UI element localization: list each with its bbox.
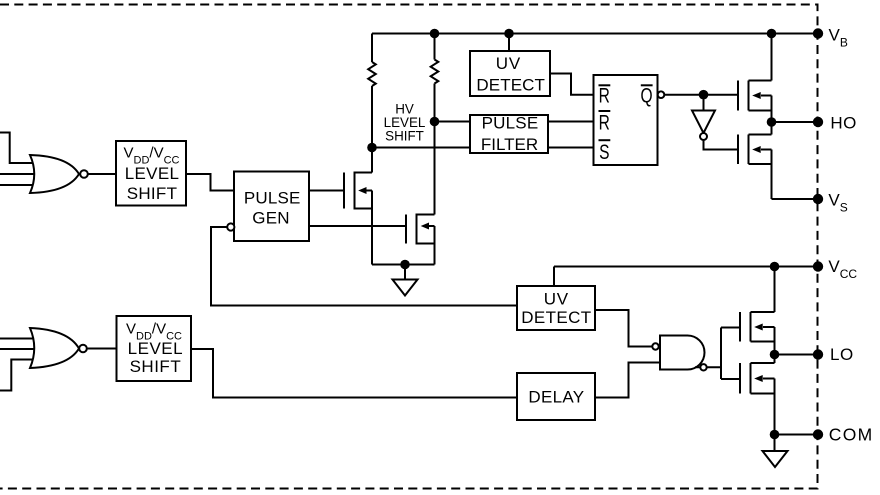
svg-text:UV: UV: [496, 54, 521, 73]
pin HO: [813, 117, 823, 127]
box VDD/VCC LEVEL SHIFT (high side): [116, 141, 186, 206]
svg-text:DELAY: DELAY: [528, 388, 584, 407]
junction dot VCC-Q5: [770, 262, 780, 272]
svg-text:R: R: [599, 83, 610, 107]
box VDD/VCC LEVEL SHIFT (low side): [117, 316, 192, 381]
wire ground stub: [404, 265, 406, 280]
svg-text:R: R: [599, 110, 610, 134]
NOR U2 output bubble: [79, 345, 87, 353]
junction dot rail-R2: [430, 29, 440, 39]
transistor Q5 (low side source FET): [740, 267, 775, 355]
NOR gate U2 (low-side input): [30, 328, 79, 368]
wire U2 out to level shift: [87, 348, 117, 350]
label VDD/VCC level shift 2: [126, 321, 183, 377]
inverter output bubble: [700, 133, 707, 140]
junction dot HO node: [767, 117, 777, 127]
junction dot rail-Q3 drain: [767, 29, 777, 39]
wire pulse filter to latch R2: [548, 121, 594, 123]
junction dot COM node: [770, 430, 780, 440]
wire R2 node to pulse filter: [435, 121, 471, 123]
box PULSE FILTER: [470, 115, 548, 153]
latch R1 overbar: [599, 84, 611, 86]
NOR U1 output bubble: [80, 170, 88, 178]
wire common source rail: [372, 264, 435, 266]
wire R1 node to pulse filter: [372, 147, 470, 149]
svg-text:SHIFT: SHIFT: [385, 129, 424, 144]
NOR gate U1 (high-side input): [30, 155, 79, 193]
svg-text:UV: UV: [544, 290, 569, 309]
label PULSE GEN: [244, 189, 301, 228]
ground (level shift): [393, 280, 418, 296]
box UV DETECT (low side): [517, 286, 595, 330]
wire to Q6 gate: [721, 378, 740, 380]
svg-text:SHIFT: SHIFT: [130, 357, 182, 376]
label HV LEVEL SHIFT: [384, 102, 426, 144]
label PULSE FILTER: [481, 114, 539, 155]
latch output bubble: [658, 91, 665, 98]
wire to inverter: [703, 95, 705, 111]
wire LIN input A: [0, 338, 37, 340]
transistor Q1 (HV level shift set): [344, 148, 372, 265]
wire ground stub COM: [774, 435, 776, 452]
svg-text:S: S: [599, 140, 609, 164]
wire UV detect 1 to latch R: [550, 74, 594, 95]
resistor R1: [368, 34, 376, 148]
pin VS: [813, 194, 823, 204]
label UV DETECT 2: [521, 290, 591, 328]
pin VB: [813, 28, 823, 38]
latch U3 (RS latch): [594, 75, 658, 165]
svg-text:HO: HO: [830, 114, 857, 133]
svg-text:PULSE: PULSE: [244, 189, 301, 208]
wire NAND out to gates: [720, 328, 722, 380]
pin LO: [813, 349, 823, 359]
wire UV detect 2 to NAND: [595, 310, 652, 347]
junction dot source node: [400, 260, 410, 270]
junction dot LO node: [770, 350, 780, 360]
label UV DETECT 1: [476, 54, 545, 95]
latch Q overbar: [641, 84, 653, 86]
svg-text:DETECT: DETECT: [476, 76, 545, 95]
wire UV detect 2 supply: [553, 267, 555, 287]
wire pulse gen out 2: [309, 225, 406, 227]
wire pulse filter to latch S: [548, 147, 594, 149]
box DELAY: [517, 373, 595, 420]
wire latch Q to gate Q3: [664, 94, 738, 96]
resistor R2: [431, 34, 439, 122]
wire HO: [772, 121, 819, 123]
svg-text:COM: COM: [829, 425, 874, 445]
wire VCC rail: [554, 266, 818, 268]
wire U1 out to level shift: [88, 173, 116, 175]
wire level shift 2 to delay: [191, 349, 517, 398]
svg-text:LEVEL: LEVEL: [125, 164, 179, 183]
wire pulse gen out 1: [309, 190, 344, 192]
latch S overbar: [599, 139, 611, 141]
transistor Q3 (high side source FET): [738, 34, 772, 123]
svg-text:SHIFT: SHIFT: [127, 184, 178, 203]
svg-text:FILTER: FILTER: [481, 135, 538, 154]
transistor Q2 (HV level shift reset): [406, 122, 435, 265]
pin VCC: [813, 261, 823, 271]
NAND gate U5: [652, 336, 721, 371]
ground (COM): [763, 451, 788, 467]
wire LO: [775, 354, 819, 356]
svg-text:Q: Q: [641, 83, 653, 107]
junction dot R2 bottom node: [430, 117, 440, 127]
label VDD/VCC level shift 1: [124, 145, 180, 204]
pin COM: [813, 429, 823, 439]
wire inverter to gate Q4: [704, 140, 739, 150]
wire UV detect 1 supply: [508, 34, 510, 52]
transistor Q4 (high side sink FET): [738, 122, 772, 199]
wire LIN input C (L-shape): [0, 360, 37, 391]
transistor Q6 (low side sink FET): [740, 355, 775, 435]
box PULSE GEN: [234, 172, 309, 242]
PULSE GEN input bubble: [227, 223, 234, 230]
wire LIN input B: [0, 348, 37, 350]
latch R2 overbar: [599, 110, 611, 112]
wire delay to NAND: [595, 363, 660, 398]
inverter U4: [692, 111, 715, 134]
svg-text:PULSE: PULSE: [482, 114, 539, 133]
wire COM: [775, 434, 819, 436]
box UV DETECT (high side): [470, 51, 550, 96]
svg-text:GEN: GEN: [252, 209, 289, 228]
wire to Q5 gate: [721, 327, 740, 329]
wire pulse gen feedback from UV detect 2: [211, 227, 517, 306]
wire level shift to pulse gen: [186, 174, 234, 191]
junction dot Q output node: [699, 90, 709, 100]
wire HIN input A (L-shape): [0, 133, 37, 164]
svg-text:DETECT: DETECT: [521, 308, 591, 327]
wire VS: [772, 198, 819, 200]
wire HIN input B: [0, 173, 37, 175]
wire VB top rail: [372, 33, 818, 35]
svg-text:LEVEL: LEVEL: [128, 339, 183, 358]
junction dot rail-UV: [504, 29, 514, 39]
svg-text:LO: LO: [830, 345, 854, 364]
junction dot R1 bottom node: [367, 143, 377, 153]
wire HIN input C: [0, 184, 37, 186]
